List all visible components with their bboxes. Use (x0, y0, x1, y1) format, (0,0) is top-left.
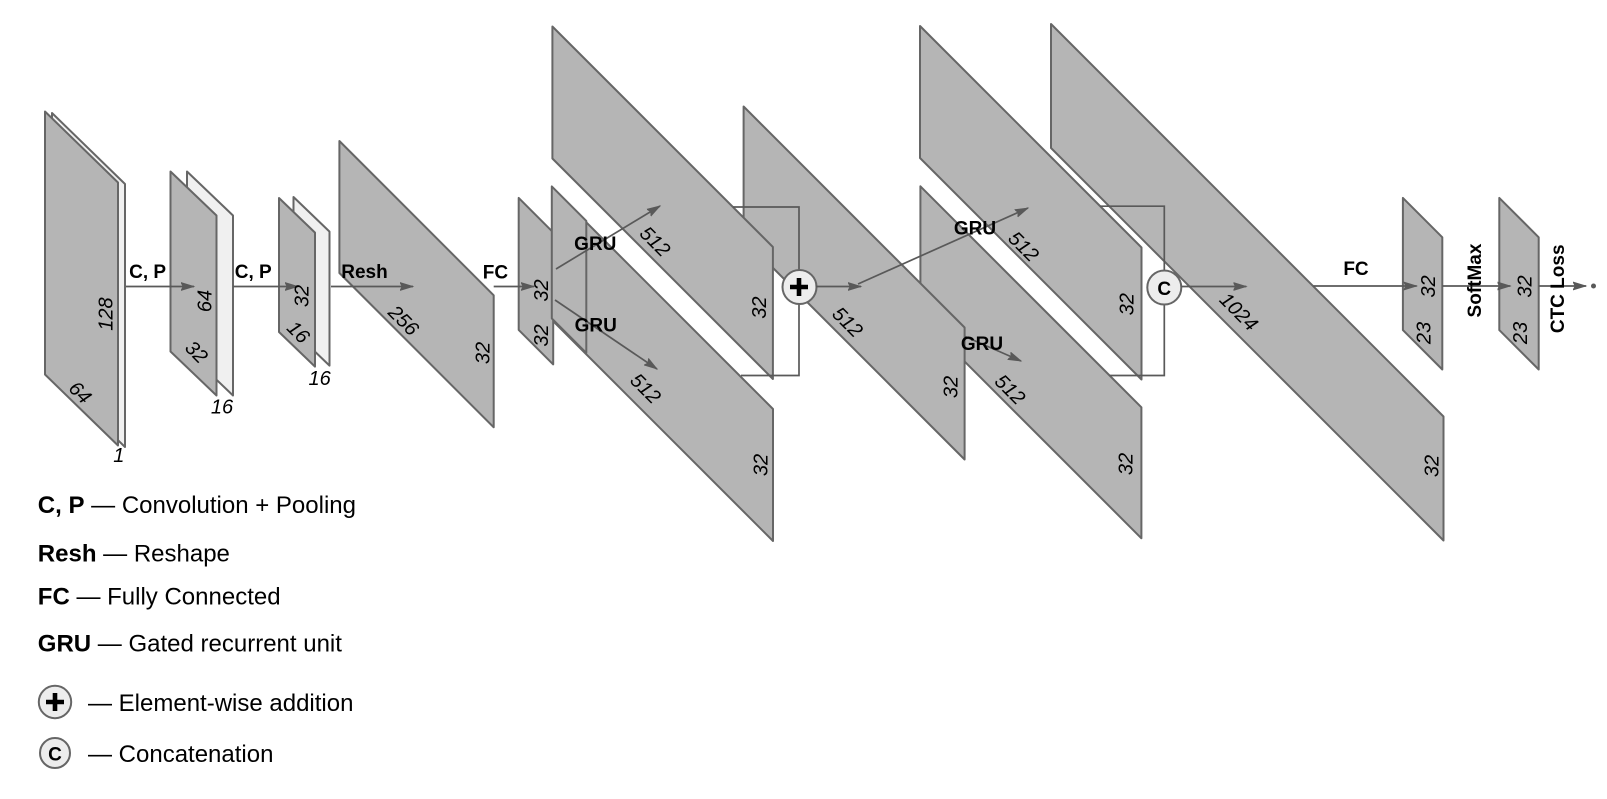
bracket into plus adder (733, 207, 799, 376)
layer B front face: 32x64x16 (171, 172, 217, 396)
layer A front face: input 64x128x1 (45, 112, 118, 446)
arrow CTC Loss (1539, 285, 1586, 287)
svg-text:1: 1 (113, 445, 124, 467)
arrow C,P 1 (126, 286, 194, 288)
layer K: GRU4 output 512x32 sheet (behind H) (920, 186, 1141, 538)
layer D: reshaped 256x32 sheet (339, 141, 493, 427)
svg-text:16: 16 (211, 397, 234, 419)
arrow concat to L (1181, 286, 1246, 288)
svg-text:23: 23 (1510, 322, 1532, 345)
end dot (1591, 284, 1596, 289)
svg-text:64: 64 (195, 290, 217, 312)
arrow GRU 1 (556, 206, 660, 269)
arrow GRU 2 (555, 300, 657, 369)
plus sign (790, 278, 808, 296)
arrow Resh (331, 286, 413, 288)
legend concat circle (40, 738, 70, 768)
svg-text:32: 32 (1116, 453, 1138, 475)
svg-text:Resh: Resh (341, 262, 387, 283)
bracket into concat (1100, 206, 1164, 375)
svg-text:32: 32 (531, 279, 553, 301)
svg-text:Resh — Reshape: Resh — Reshape (38, 541, 230, 568)
svg-text:32: 32 (292, 285, 314, 307)
svg-text:32: 32 (751, 454, 773, 476)
svg-text:32: 32 (1422, 455, 1444, 477)
layer G: GRU2 output 512x32 sheet (behind E2) (553, 189, 773, 541)
arrow C,P 2 (233, 286, 298, 288)
svg-text:GRU — Gated recurrent unit: GRU — Gated recurrent unit (38, 631, 342, 658)
svg-text:32: 32 (749, 296, 771, 318)
arrow FC 1 (494, 286, 534, 288)
svg-text:GRU: GRU (575, 316, 617, 337)
plus adder circle (783, 270, 817, 304)
layer E2: FC output 32 sheet (front) (552, 186, 587, 353)
svg-text:GRU: GRU (954, 219, 996, 240)
svg-text:128: 128 (96, 297, 118, 330)
legend plus circle (39, 686, 71, 718)
svg-text:GRU: GRU (961, 334, 1003, 355)
legend plus sign (46, 693, 64, 711)
svg-text:C, P — Convolution + Pooling: C, P — Convolution + Pooling (38, 492, 356, 519)
svg-text:CTC Loss: CTC Loss (1548, 244, 1569, 333)
layer H: summed 512x32 sheet (744, 107, 965, 460)
layer B back face (187, 172, 233, 396)
svg-text:16: 16 (308, 368, 331, 390)
layer M: FC output 32x23 sheet (1403, 198, 1442, 370)
svg-text:32: 32 (941, 376, 963, 398)
layer F: GRU1 output 512x32 sheet (552, 27, 773, 380)
svg-text:SoftMax: SoftMax (1465, 243, 1486, 317)
svg-text:C, P: C, P (235, 262, 272, 283)
layer J: GRU3 output 512x32 sheet (920, 26, 1142, 380)
concat circle (1147, 271, 1181, 305)
svg-text:C, P: C, P (129, 262, 166, 283)
svg-text:FC: FC (483, 263, 509, 284)
svg-text:23: 23 (1414, 322, 1436, 345)
svg-text:32: 32 (1418, 275, 1440, 297)
arrow GRU 4 (965, 337, 1021, 362)
svg-text:32: 32 (531, 324, 553, 346)
layer N: softmax output 32x23 sheet (1499, 198, 1538, 370)
svg-text:— Concatenation: — Concatenation (88, 741, 273, 768)
layer C back face (294, 197, 330, 366)
layer L: concatenated 1024x32 sheet (1051, 24, 1444, 541)
svg-text:32: 32 (1117, 293, 1139, 315)
svg-text:— Element-wise addition: — Element-wise addition (88, 690, 353, 717)
layer E1: FC output 32 sheet (519, 198, 554, 365)
layer A back face (input slab depth) (52, 113, 125, 447)
layer C front face: 16x32x16 (279, 198, 315, 367)
arrow GRU 3 (858, 208, 1028, 284)
svg-text:FC: FC (1343, 259, 1369, 280)
arrow plus to H (816, 286, 862, 288)
svg-text:32: 32 (473, 342, 495, 364)
svg-text:C: C (1157, 279, 1171, 300)
arrow FC 2 (1313, 285, 1416, 287)
svg-text:FC — Fully Connected: FC — Fully Connected (38, 584, 281, 611)
arrow SoftMax (1442, 285, 1510, 287)
svg-text:32: 32 (1515, 275, 1537, 297)
svg-text:C: C (48, 745, 62, 766)
svg-text:GRU: GRU (574, 234, 616, 255)
